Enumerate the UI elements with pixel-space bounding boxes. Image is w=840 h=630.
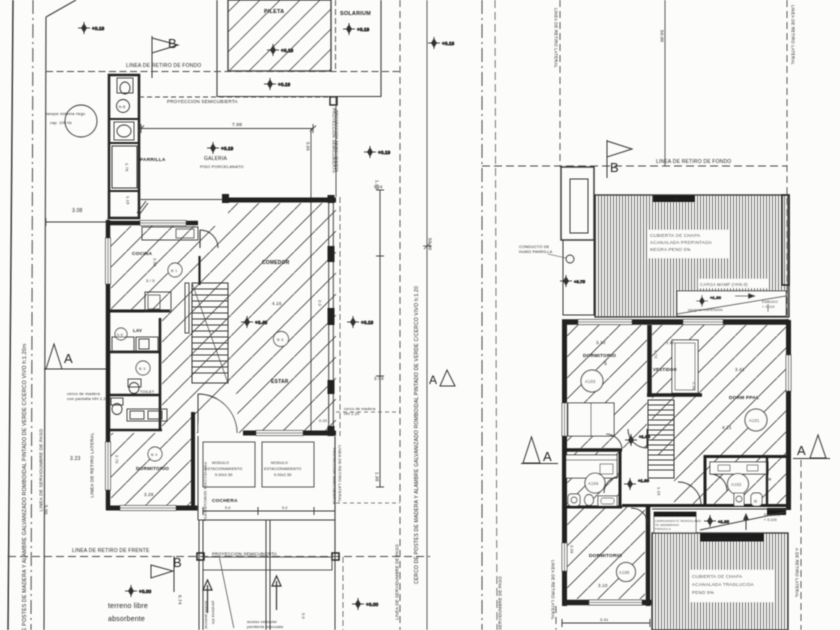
cocina right wall segment [198, 256, 200, 285]
linea de retiro de fondo dashed line [46, 71, 400, 73]
svg-text:GALERIA: GALERIA [204, 156, 228, 162]
upper floor right wall [786, 320, 791, 510]
bath A104 walls [562, 450, 622, 507]
svg-text:+0.00: +0.00 [139, 589, 152, 594]
A105 bottom window [589, 600, 642, 605]
section flag B bottom [151, 555, 182, 592]
svg-text:B: B [610, 160, 619, 175]
A103 bottom wall / bath top [562, 448, 622, 452]
svg-text:4.16: 4.16 [272, 301, 282, 306]
svg-text:+0.19: +0.19 [221, 146, 234, 151]
embudo note bottom [764, 513, 780, 522]
dormitorio dims [115, 455, 154, 497]
svg-text:1.80: 1.80 [666, 340, 675, 345]
A105 bottom wall [562, 600, 652, 606]
bath A104 toilet [568, 494, 580, 506]
top roof dark label strip [653, 196, 695, 203]
servidumbre rotated text left [39, 429, 44, 512]
svg-text:+0.19: +0.19 [378, 150, 391, 155]
upper floor hatch bath A102 [707, 457, 786, 507]
cross +0.19 pool [267, 44, 294, 56]
dormitorio right wall [191, 412, 195, 510]
solarium label [340, 11, 371, 17]
cross +0.75 flue [560, 275, 586, 287]
cross +0.19 x434 [428, 37, 455, 49]
svg-text:PILETA: PILETA [264, 9, 284, 15]
proyeccion semicubierta dashed line galeria [139, 96, 336, 98]
dim 5.06 left bottom [44, 505, 49, 515]
house right wall window lines [329, 197, 334, 436]
svg-text:EMBUDO: EMBUDO [762, 300, 778, 304]
conducto de humo note [519, 245, 566, 258]
linea de retiro de fondo text [126, 63, 201, 69]
svg-text:3.28: 3.28 [144, 492, 154, 497]
bath pb toilet [128, 379, 141, 394]
svg-text:PEND 5%: PEND 5% [692, 590, 714, 595]
left wall window [562, 403, 567, 436]
basin fixture [114, 122, 134, 140]
bath A104 shower tray [598, 496, 617, 506]
svg-text:COCHERA: COCHERA [212, 498, 238, 504]
svg-text:LINEA DE RETIRO DE FRENTE: LINEA DE RETIRO DE FRENTE [72, 548, 150, 554]
driveway posts [197, 553, 339, 560]
svg-text:5.0: 5.0 [282, 506, 288, 510]
svg-text:B 3: B 3 [139, 366, 146, 371]
hall bottom wall [622, 504, 705, 507]
dim 5.18 top right [374, 184, 383, 189]
svg-text:cerco de madera: cerco de madera [344, 407, 376, 411]
cocina dims [146, 258, 158, 283]
svg-text:DORMITORIO: DORMITORIO [136, 466, 169, 472]
lav label [133, 328, 142, 333]
dormitorio pb circle [148, 447, 162, 461]
svg-text:TERMO INTERMEDIO: TERMO INTERMEDIO [655, 513, 689, 517]
cross +0.19 right mid [347, 316, 374, 328]
toilette label [140, 390, 155, 394]
dim 0.74 rotated [178, 595, 183, 605]
svg-text:COMEDOR: COMEDOR [262, 260, 290, 266]
proyeccion semicubierta rotated right low [332, 448, 336, 505]
svg-text:ACANALADA PREPINTADA: ACANALADA PREPINTADA [650, 240, 713, 245]
svg-text:+0.48: +0.48 [255, 320, 268, 325]
solarium divider dashed [335, 0, 337, 71]
cross +1.35 hall [624, 478, 650, 490]
retiro lateral rotated text right bottom [795, 548, 800, 598]
cross marker +0.19 top left [78, 22, 105, 34]
galeria dim line 7.98 [138, 122, 316, 133]
svg-text:R: R [754, 499, 758, 504]
svg-text:3.08: 3.08 [72, 208, 83, 214]
stair [192, 283, 228, 383]
dormitorio pb label [136, 466, 169, 472]
svg-text:LINEA DE RETIRO LATERAL: LINEA DE RETIRO LATERAL [338, 445, 343, 503]
svg-text:0.98: 0.98 [692, 382, 697, 391]
chimney outer box [561, 167, 594, 240]
dashed line right of estar wall [340, 197, 343, 630]
dimension 3.08 line [46, 208, 108, 226]
svg-text:5.06: 5.06 [44, 505, 49, 515]
svg-text:pendiente 6%: pendiente 6% [211, 601, 215, 624]
bath pb circle [136, 361, 150, 375]
upper floor hatch A103 [567, 325, 647, 448]
cochera dim line [203, 506, 335, 515]
circle cocina [168, 263, 182, 277]
svg-text:CONDUCTO DE: CONDUCTO DE [519, 245, 550, 249]
cross +0.48 estar [241, 316, 268, 328]
vestidor dims [654, 340, 697, 391]
svg-text:3 / 8: 3 / 8 [374, 376, 384, 381]
outbuilding outer walls [109, 75, 139, 218]
upper floor left wall [562, 320, 567, 606]
top roof ribbed [595, 195, 789, 317]
svg-text:acceso peatonal: acceso peatonal [204, 601, 208, 629]
svg-text:b-6: b-6 [117, 333, 123, 337]
bath A102 niche wall [766, 457, 768, 507]
cochera bottom line [198, 519, 335, 521]
fence text CERCO DE POSTES (left, rotated) [22, 344, 28, 630]
svg-text:6.74: 6.74 [178, 595, 183, 605]
svg-text:+0.19: +0.19 [442, 41, 455, 46]
kitchen door arc [200, 230, 218, 248]
cross +0.00 right driveway [352, 598, 379, 610]
retiro lateral left dashed (right plan) [556, 0, 560, 630]
svg-text:PROYECCION SEMICUBIERTA: PROYECCION SEMICUBIERTA [335, 110, 340, 172]
circle A104 [585, 473, 605, 493]
bath A104 bidet [585, 495, 594, 506]
svg-text:4.21: 4.21 [722, 425, 732, 430]
toilette counter [127, 409, 167, 421]
top wall window 1 [578, 320, 632, 325]
svg-text:DORMITORIO: DORMITORIO [583, 353, 616, 359]
acceso peatonal rotated [204, 601, 305, 629]
svg-text:5.0: 5.0 [225, 506, 231, 510]
modulo estacionamiento box 2 [262, 442, 314, 487]
dim 3.23 [70, 456, 81, 462]
svg-text:A104: A104 [588, 481, 599, 486]
dim line right of house x380 [376, 190, 384, 487]
bath A104 vanity [566, 455, 617, 478]
cross +1.00 bottom [704, 515, 730, 527]
svg-text:+0.00: +0.00 [366, 602, 379, 607]
svg-text:ESTACIONAMIENTO: ESTACIONAMIENTO [205, 467, 242, 471]
cochera right edge [334, 436, 336, 556]
cerco de madera note [67, 391, 109, 401]
right wall window [786, 355, 791, 391]
embudo note top roof [762, 300, 778, 312]
upper floor hatch dorm ppal [652, 325, 786, 455]
svg-text:A: A [797, 443, 806, 458]
svg-text:5.06: 5.06 [306, 142, 311, 151]
upper floor hatch A105 [567, 507, 645, 599]
svg-text:DORMITORIO: DORMITORIO [589, 553, 622, 559]
svg-text:LINEA DE RETIRO DE FONDO: LINEA DE RETIRO DE FONDO [126, 63, 201, 69]
lot boundary left solid line [8, 0, 13, 630]
svg-text:B: B [168, 36, 177, 51]
svg-text:2.0: 2.0 [318, 300, 323, 307]
wc fixture top [117, 78, 133, 94]
dormitorio bottom wall [106, 506, 198, 511]
right lot dash-dot boundary [481, 0, 483, 630]
svg-text:3.10: 3.10 [598, 583, 608, 588]
cocina counter top [142, 227, 198, 240]
circle A105 [617, 563, 636, 582]
proyeccion semicubierta rotated cochera [203, 462, 207, 522]
retiro lateral rotated text left [90, 432, 95, 498]
svg-text:3.41: 3.41 [735, 367, 745, 372]
termo note box [654, 512, 702, 533]
svg-text:PISO PORCELANATO: PISO PORCELANATO [200, 164, 244, 169]
door arc dorm ppal [628, 429, 647, 448]
section marker A right of left plan [429, 370, 455, 387]
linea retiro de frente dashed [8, 556, 430, 558]
proyeccion boundary line right of galeria [335, 97, 337, 197]
vestidor bottom wall [647, 393, 702, 397]
carga mamp strip top roof [698, 279, 768, 288]
right lot dashed boundary [495, 0, 497, 630]
svg-text:tanque sistema riego: tanque sistema riego [46, 112, 85, 116]
dim 3.41 [735, 367, 745, 372]
bath column outer wall [108, 318, 162, 430]
dim labels right of house [374, 180, 384, 482]
outbuilding partition walls [109, 119, 139, 191]
lot line vertical x46 [44, 17, 46, 630]
top roof right edge dark band [782, 195, 789, 285]
dormitorio A103 label [583, 353, 616, 367]
svg-text:+ 0.100: + 0.100 [764, 518, 777, 522]
svg-text:0.20: 0.20 [319, 419, 327, 423]
pendiente diagonal bottom [700, 512, 786, 530]
svg-text:1.15: 1.15 [126, 196, 131, 205]
parrilla counter [112, 146, 137, 188]
linea retiro de frente text [72, 548, 150, 554]
driveway arrow 1 [203, 580, 212, 613]
vestidor label [653, 367, 678, 372]
dashed tie line right 2 [336, 502, 400, 504]
svg-text:+ 0.100: + 0.100 [762, 305, 775, 309]
svg-text:2.70: 2.70 [115, 455, 120, 464]
cocina counter left [145, 292, 171, 312]
A105 left wall window [562, 543, 567, 571]
kitchen top wall [109, 221, 198, 226]
proyeccion semicubierta rotated right of galeria [332, 108, 337, 173]
svg-text:7.98: 7.98 [232, 122, 242, 128]
svg-text:LINEA DE RETIRO LATERAL: LINEA DE RETIRO LATERAL [551, 560, 556, 620]
retiro lateral rotated text left top [554, 8, 559, 68]
flue shaft box [563, 240, 594, 315]
svg-text:PROYECCION SEMICUBIERTA: PROYECCION SEMICUBIERTA [167, 99, 239, 104]
A103 closet [568, 403, 614, 436]
svg-text:cap. 100 lts: cap. 100 lts [50, 121, 72, 125]
driveway left lines [199, 520, 203, 630]
bottom roof note box [690, 570, 774, 602]
dormitorio bottom window [120, 506, 176, 511]
svg-text:3.23: 3.23 [70, 456, 81, 462]
center dim line top [664, 0, 666, 166]
upper stair [648, 400, 674, 478]
cross +0.19 below pool [264, 78, 291, 90]
house left wall [106, 220, 111, 510]
svg-text:1.98: 1.98 [375, 472, 380, 482]
svg-text:ACANALADA TRASLUCIDA: ACANALADA TRASLUCIDA [692, 582, 755, 587]
upper floor hatch bath A104 [564, 452, 620, 507]
svg-text:+0.19: +0.19 [92, 26, 105, 31]
pool label PILETA [264, 9, 284, 15]
door slash outbuilding [137, 201, 148, 215]
wall below cocina [109, 310, 170, 313]
modulo estacionamiento box 1 [203, 442, 255, 487]
svg-text:5.00x2.50: 5.00x2.50 [274, 473, 292, 477]
section flag B right plan [607, 140, 632, 178]
pool deck outline [217, 0, 381, 97]
svg-text:+0.19: +0.19 [281, 48, 294, 53]
svg-text:5.00x2.50: 5.00x2.50 [215, 473, 233, 477]
svg-text:A101: A101 [749, 418, 760, 423]
svg-text:CHAPA 20MM: CHAPA 20MM [656, 198, 681, 202]
svg-text:+1.35: +1.35 [639, 434, 651, 439]
cross +0.19 galeria [207, 142, 234, 154]
circle A101 [745, 409, 767, 431]
window left wall cocina [106, 238, 111, 284]
linea retiro lateral rotated right [338, 445, 343, 503]
parrilla label [140, 157, 166, 163]
deck corner post [330, 97, 337, 105]
svg-text:CARGA MAMP (HH6.0): CARGA MAMP (HH6.0) [702, 536, 748, 541]
section marker A right plan right [793, 435, 830, 459]
svg-text:+0.19: +0.19 [357, 27, 370, 32]
cochera left edge line [197, 436, 199, 520]
door arc A102 [710, 474, 727, 491]
svg-text:LINEA DE RETIRO LATERAL: LINEA DE RETIRO LATERAL [791, 5, 796, 65]
svg-text:CUBIERTA DE CHAPA: CUBIERTA DE CHAPA [650, 233, 701, 238]
svg-text:HH 1.20: HH 1.20 [344, 412, 359, 416]
driveway arrow 2 [272, 576, 281, 610]
svg-text:MODULO: MODULO [271, 461, 288, 465]
bottom dim line right plan [562, 617, 650, 627]
svg-text:VESTIDOR: VESTIDOR [653, 367, 678, 372]
servidumbre rotated text x397 [395, 544, 400, 620]
svg-text:ESTACIONAMIENTO: ESTACIONAMIENTO [264, 467, 301, 471]
cross +0.19 right of wall [364, 146, 391, 158]
arrow up bottom pergola [743, 513, 749, 530]
svg-text:LINEA DE RETIRO LATERAL: LINEA DE RETIRO LATERAL [90, 432, 95, 498]
dim 3.10 A103 [596, 340, 606, 345]
svg-text:LINEA DE RETIRO LATERAL: LINEA DE RETIRO LATERAL [554, 8, 559, 68]
chimney inner box [570, 179, 588, 233]
stair side rail [185, 283, 189, 333]
svg-text:A: A [64, 351, 73, 366]
entry door arc [198, 394, 237, 433]
dim 1.75 outbuilding [125, 163, 130, 172]
bath A102 shower R [751, 493, 762, 506]
pergola transitable text [688, 308, 723, 312]
lot corner diagonal [46, 0, 76, 17]
svg-text:CERCO DE POSTES DE MADERA: CERCO DE POSTES DE MADERA Y ALAMBRE GALV… [22, 344, 28, 630]
toilette toilet [111, 398, 123, 415]
floor hatch dormitorio pb [111, 433, 195, 508]
black corner block [767, 508, 786, 515]
driveway semicubierta box [203, 557, 332, 570]
dim 3.10 A105 [598, 583, 608, 588]
svg-text:CUBIERTA DE CHAPA: CUBIERTA DE CHAPA [692, 574, 743, 579]
svg-text:LAV: LAV [133, 328, 142, 333]
bath A104 door arc [604, 476, 621, 493]
driveway center double line [266, 520, 270, 630]
svg-text:+0.75: +0.75 [574, 279, 586, 284]
proyeccion semicubierta rotated right wall [335, 110, 340, 172]
dorm ppal label [729, 395, 759, 401]
servidumbre dashed line x400 [399, 0, 401, 630]
svg-text:B 4: B 4 [151, 452, 158, 457]
svg-text:PROYECCION SEMICUBIERTA: PROYECCION SEMICUBIERTA [332, 448, 336, 505]
svg-text:+1.35: +1.35 [638, 478, 650, 483]
svg-text:3.05: 3.05 [570, 545, 575, 554]
dim 3.05 A105 left rotated [570, 545, 575, 554]
lav machines [112, 337, 158, 351]
bath A102 niche label [768, 478, 773, 481]
estar bottom window [256, 431, 303, 436]
galeria bottom edge line [140, 199, 222, 201]
linea retiro de fondo text right plan [656, 159, 731, 165]
comedor top wall [222, 194, 336, 203]
svg-text:+1.00: +1.00 [718, 519, 730, 524]
dim 1.15 outbuilding [126, 196, 131, 205]
svg-text:+1.00: +1.00 [710, 295, 722, 300]
driveway right line [334, 556, 336, 630]
servidumbre rotated text right lot [498, 576, 503, 630]
svg-text:5: 5 [604, 361, 607, 367]
svg-text:A102: A102 [731, 482, 742, 487]
pergola cross +1.00 [696, 295, 722, 307]
section flag B top [152, 36, 178, 78]
svg-text:LINEA DE SERVIDUMBRE DE PASO: LINEA DE SERVIDUMBRE DE PASO [498, 576, 503, 630]
svg-text:3 / 0: 3 / 0 [146, 278, 155, 283]
svg-text:TOILET: TOILET [140, 390, 155, 394]
svg-text:PARRILLA: PARRILLA [140, 157, 166, 163]
door arc A105 [631, 508, 648, 525]
svg-text:1.15: 1.15 [657, 487, 662, 496]
svg-text:LINEA DE SERVIDUMBRE DE PASO: LINEA DE SERVIDUMBRE DE PASO [395, 544, 400, 620]
line above bottom roof [652, 508, 788, 510]
svg-text:b-6: b-6 [119, 104, 126, 109]
svg-text:PROYECCION SEMICUBIERTA: PROYECCION SEMICUBIERTA [203, 462, 207, 522]
upper floor top wall [562, 319, 789, 325]
fence rotated text column 2 [414, 286, 420, 584]
svg-text:B 5: B 5 [277, 337, 284, 342]
proyeccion semicubierta label [167, 99, 239, 104]
svg-text:+0.19: +0.19 [361, 320, 374, 325]
svg-text:A: A [543, 449, 552, 464]
circle lav [115, 328, 127, 340]
svg-text:LINEA DE SERVIDUMBRE DE PASO: LINEA DE SERVIDUMBRE DE PASO [39, 429, 44, 512]
linea retiro de fondo dashed right plan [482, 165, 787, 167]
pool PILETA hatched [228, 0, 331, 71]
top wall window 2 [683, 320, 723, 325]
estar bottom wall [243, 431, 336, 436]
svg-text:3.58: 3.58 [153, 258, 158, 267]
svg-text:EMBUDO: EMBUDO [764, 513, 780, 517]
svg-text:B 1: B 1 [171, 268, 178, 273]
dim 0.20 estar [319, 419, 327, 423]
retiro lateral rotated text right [791, 5, 796, 65]
pergola arrow [735, 293, 756, 299]
acceso vehicular note [247, 620, 283, 629]
window left wall dormitorio [106, 442, 111, 490]
svg-text:NEGRA PEND 5%: NEGRA PEND 5% [650, 247, 691, 252]
svg-text:1.75: 1.75 [125, 163, 130, 172]
svg-text:PERGOLA: PERGOLA [655, 527, 671, 531]
cocina label [132, 251, 152, 257]
bath A102 toilet [734, 493, 744, 506]
